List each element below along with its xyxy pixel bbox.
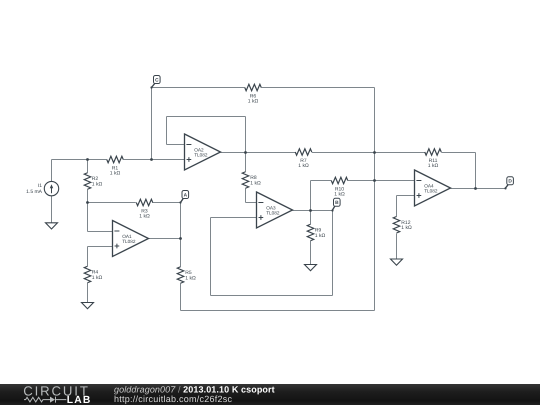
svg-text:A: A <box>184 192 188 198</box>
svg-text:1 kΩ: 1 kΩ <box>185 275 196 281</box>
svg-text:TL082: TL082 <box>424 189 438 194</box>
svg-text:1 kΩ: 1 kΩ <box>428 163 439 169</box>
svg-text:1 kΩ: 1 kΩ <box>110 171 121 177</box>
svg-text:http://circuitlab.com/c26f2sc: http://circuitlab.com/c26f2sc <box>114 394 233 404</box>
svg-text:B: B <box>335 200 339 206</box>
svg-text:TL082: TL082 <box>122 239 136 244</box>
svg-text:1 kΩ: 1 kΩ <box>250 180 261 186</box>
svg-text:LAB: LAB <box>67 395 92 405</box>
svg-text:1 kΩ: 1 kΩ <box>92 275 103 281</box>
svg-text:D: D <box>508 179 512 185</box>
svg-text:1 kΩ: 1 kΩ <box>248 99 259 105</box>
svg-text:1 kΩ: 1 kΩ <box>298 163 309 169</box>
svg-text:1 kΩ: 1 kΩ <box>92 181 103 187</box>
svg-text:1 kΩ: 1 kΩ <box>334 192 345 198</box>
svg-text:1.5 mA: 1.5 mA <box>26 189 43 195</box>
svg-text:1 kΩ: 1 kΩ <box>315 233 326 239</box>
svg-text:TL082: TL082 <box>266 211 280 216</box>
svg-text:1 kΩ: 1 kΩ <box>401 225 412 231</box>
svg-text:1 kΩ: 1 kΩ <box>139 214 150 220</box>
svg-text:C: C <box>155 77 159 83</box>
svg-text:TL082: TL082 <box>194 153 208 158</box>
